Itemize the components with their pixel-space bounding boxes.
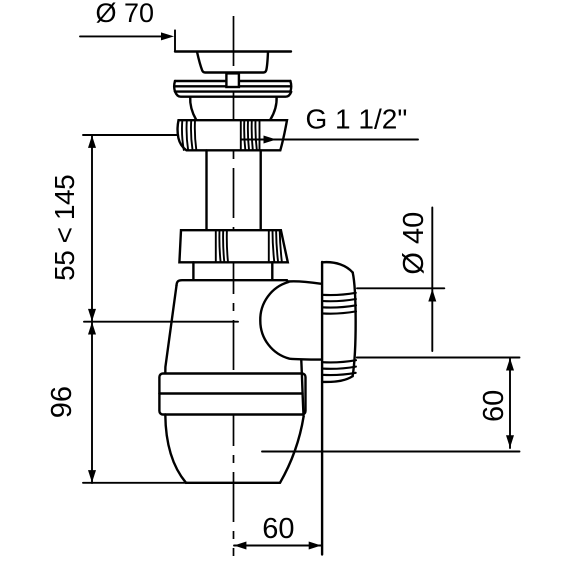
dim arrow D70	[161, 32, 174, 40]
body left edge	[165, 286, 176, 374]
dim tick D70	[174, 30, 176, 51]
svg-text:96: 96	[46, 386, 78, 418]
washer lip	[175, 92, 291, 97]
washer disc top line	[175, 80, 290, 82]
elbow neck	[301, 361, 303, 417]
elbow top edge	[287, 281, 320, 283]
strainer cup	[197, 52, 268, 73]
collar left	[192, 262, 194, 279]
svg-text:60: 60	[262, 513, 294, 545]
left dim vertical	[91, 135, 93, 483]
locknut knurl center band	[240, 121, 242, 150]
washer disc lower line	[175, 90, 290, 92]
left dim arrows	[88, 135, 96, 148]
D40 long line	[357, 357, 520, 359]
body top line	[177, 280, 288, 285]
D40 dim line	[431, 208, 433, 352]
collar right	[271, 262, 273, 279]
bowl left curve	[190, 97, 196, 120]
centerline	[233, 16, 235, 556]
left dim mid extension	[84, 321, 238, 323]
G thread arrow	[264, 136, 277, 144]
outlet nut knurl top band	[322, 293, 356, 295]
washer right end cap	[289, 81, 292, 92]
lower nut knurl band 1	[215, 230, 217, 262]
right dim 60 line	[509, 358, 511, 449]
lower nut knurl band 2	[268, 230, 270, 262]
cup right wall	[280, 417, 304, 483]
tailpipe right	[260, 150, 262, 230]
washer left end cap	[173, 81, 176, 92]
bottom dim 60 line	[234, 545, 321, 547]
outlet nut bottom edge	[322, 376, 353, 382]
left extension top	[83, 134, 178, 136]
svg-text:Ø 70: Ø 70	[96, 0, 155, 28]
ring union nut	[159, 374, 305, 415]
D40 arrow	[428, 289, 436, 302]
flange top line	[175, 50, 291, 52]
svg-text:G 1 1/2": G 1 1/2"	[306, 104, 408, 135]
outlet nut knurl bottom band	[322, 360, 356, 362]
svg-text:Ø 40: Ø 40	[398, 212, 430, 275]
ring mid line	[159, 392, 302, 394]
dim label D70 leader	[80, 35, 163, 37]
left dim bottom extension	[83, 482, 188, 484]
cup bottom	[186, 482, 280, 484]
D40 ext line	[357, 287, 444, 289]
outlet nut top edge	[322, 262, 353, 272]
locknut knurl left	[182, 121, 184, 150]
svg-text:55 < 145: 55 < 145	[49, 175, 80, 281]
lower nut outline	[179, 230, 287, 262]
right dim arrows	[506, 358, 514, 371]
bowl right curve	[270, 97, 276, 120]
bottom dim arrows	[234, 542, 247, 550]
G thread leader	[241, 139, 418, 141]
washer disc mid line	[175, 85, 290, 87]
cup left wall	[165, 415, 186, 483]
outlet nut right edge	[353, 273, 356, 377]
depth leader 60	[262, 451, 520, 453]
screw head	[226, 73, 239, 87]
tailpipe left	[205, 150, 207, 230]
svg-text:60: 60	[478, 390, 510, 422]
elbow blob	[260, 282, 322, 360]
outlet nut left edge and bottom extension	[321, 262, 323, 555]
locknut G outline	[178, 120, 287, 150]
